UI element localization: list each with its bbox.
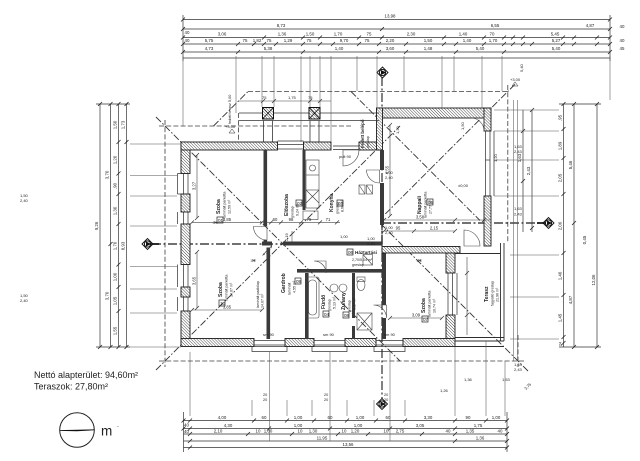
terrace edge right double bbox=[500, 243, 502, 341]
left witness lines bbox=[130, 144, 181, 347]
wall step between sections bbox=[377, 108, 383, 150]
svg-text:1,00: 1,00 bbox=[294, 415, 303, 420]
svg-text:20: 20 bbox=[384, 393, 388, 397]
svg-text:1,53: 1,53 bbox=[502, 377, 511, 382]
elevation mark right bbox=[512, 82, 518, 86]
svg-text:1,36: 1,36 bbox=[278, 32, 287, 37]
svg-text:1,36: 1,36 bbox=[464, 377, 473, 382]
washing machine haztartasi bbox=[363, 255, 373, 266]
svg-text:20: 20 bbox=[384, 398, 388, 402]
svg-text:2,40: 2,40 bbox=[367, 241, 376, 246]
window top (left section) bbox=[278, 145, 304, 150]
svg-text:Fürdő: Fürdő bbox=[321, 295, 327, 309]
svg-text:Gardrob: Gardrob bbox=[281, 273, 287, 293]
svg-text:1,00: 1,00 bbox=[492, 415, 501, 420]
top chain line 6 bbox=[183, 57, 610, 59]
wall left pier5 bbox=[181, 311, 190, 346]
bottom chain ticks bbox=[182, 419, 510, 450]
svg-text:1,63: 1,63 bbox=[514, 206, 523, 211]
svg-text:2,43: 2,43 bbox=[514, 149, 523, 154]
wall left pier1 bbox=[181, 142, 190, 174]
svg-text:1,05: 1,05 bbox=[113, 296, 118, 305]
wall top seg3 porch bbox=[359, 142, 380, 150]
eaves right vertical bbox=[507, 85, 509, 243]
wall right upper pier1 bbox=[484, 108, 491, 131]
top witness lines bbox=[183, 56, 610, 142]
svg-text:21,96 m²: 21,96 m² bbox=[496, 287, 500, 302]
door arc szoba01 bbox=[254, 227, 268, 241]
svg-text:5,45: 5,45 bbox=[551, 32, 560, 37]
svg-text:1,30: 1,30 bbox=[309, 429, 318, 434]
hip diagonal F right section NW bbox=[351, 92, 480, 221]
left chain numbers (rotated) bbox=[94, 120, 126, 335]
label konyha bbox=[329, 193, 345, 214]
svg-text:pult 90: pult 90 bbox=[339, 154, 352, 159]
wall V1 szoba01/eloszoba bbox=[264, 150, 268, 226]
svg-text:90: 90 bbox=[466, 415, 471, 420]
svg-text:laminált parketta: laminált parketta bbox=[428, 291, 432, 317]
svg-text:3,30: 3,30 bbox=[424, 415, 433, 420]
svg-text:9,26: 9,26 bbox=[94, 221, 99, 230]
svg-text:1,50: 1,50 bbox=[460, 121, 465, 130]
svg-text:70: 70 bbox=[490, 32, 495, 37]
svg-text:Fedett belépő: Fedett belépő bbox=[360, 119, 365, 148]
svg-text:8,93: 8,93 bbox=[121, 241, 126, 250]
svg-text:1,55: 1,55 bbox=[113, 326, 118, 335]
door arc furdo bbox=[314, 261, 326, 273]
svg-text:13,98: 13,98 bbox=[385, 14, 397, 19]
chimney pillar 1 bbox=[263, 108, 274, 120]
door arc entrance bbox=[343, 150, 359, 166]
svg-text:3,06: 3,06 bbox=[218, 32, 227, 37]
wall left pier3 bbox=[181, 224, 190, 265]
wall bottom seg2 bbox=[285, 339, 314, 347]
svg-text:10,74 m²: 10,74 m² bbox=[433, 298, 437, 313]
svg-text:10: 10 bbox=[256, 429, 261, 434]
svg-text:95: 95 bbox=[396, 226, 401, 231]
wall H3 haztartasi south bbox=[297, 269, 382, 273]
svg-text:3,60: 3,60 bbox=[386, 46, 395, 51]
svg-text:greslap: greslap bbox=[366, 136, 370, 148]
svg-text:75: 75 bbox=[267, 38, 272, 43]
svg-text:laminált parketta: laminált parketta bbox=[225, 275, 229, 301]
svg-text:1,20: 1,20 bbox=[351, 429, 360, 434]
svg-text:20: 20 bbox=[324, 398, 328, 402]
wall top seg2 bbox=[304, 142, 332, 150]
wall right lower pier2 bbox=[446, 315, 455, 339]
svg-text:40: 40 bbox=[184, 429, 189, 434]
svg-text:1,40: 1,40 bbox=[463, 38, 472, 43]
door arc konyha bbox=[367, 170, 380, 183]
svg-text:1,35: 1,35 bbox=[466, 429, 475, 434]
svg-text:1,36: 1,36 bbox=[476, 436, 485, 441]
svg-text:1,75: 1,75 bbox=[474, 423, 483, 428]
svg-text:greslap: greslap bbox=[352, 263, 364, 267]
section marker bottom bbox=[377, 399, 388, 410]
svg-text:98: 98 bbox=[289, 217, 294, 222]
door height marks bbox=[212, 220, 422, 263]
window left W1 bbox=[184, 174, 189, 195]
hip diagonal E porch valley bbox=[214, 92, 249, 127]
right witness lines bbox=[494, 100, 559, 361]
svg-text:`: ` bbox=[117, 427, 119, 433]
eaves top-left horizontal bbox=[159, 125, 351, 127]
svg-text:20: 20 bbox=[263, 393, 267, 397]
svg-text:3,85: 3,85 bbox=[223, 305, 232, 310]
label zuhany bbox=[341, 292, 357, 312]
porch dimension line bbox=[239, 100, 331, 102]
svg-text:1,00: 1,00 bbox=[340, 234, 349, 239]
svg-text:2,20: 2,20 bbox=[386, 38, 395, 43]
svg-text:40: 40 bbox=[498, 429, 503, 434]
door leaf boxes hall bbox=[359, 185, 365, 194]
svg-text:↕H: ↕H bbox=[212, 220, 218, 225]
label fedett terasz bbox=[228, 95, 232, 124]
svg-text:20: 20 bbox=[263, 398, 267, 402]
svg-text:2,40: 2,40 bbox=[385, 230, 394, 235]
label szoba02 material column bbox=[256, 281, 265, 308]
label nappali bbox=[417, 192, 433, 218]
svg-text:0,45: 0,45 bbox=[582, 235, 587, 244]
svg-text:↕H: ↕H bbox=[416, 258, 422, 263]
svg-text:Teraszok: 27,80m²: Teraszok: 27,80m² bbox=[34, 382, 108, 392]
terrace bottom edge bbox=[455, 337, 504, 339]
svg-text:Szoba: Szoba bbox=[421, 298, 427, 313]
wc zuhany bbox=[357, 280, 365, 291]
top chain line 1 bbox=[183, 19, 610, 21]
svg-text:laminált padlólap: laminált padlólap bbox=[256, 281, 260, 308]
svg-text:5,75: 5,75 bbox=[205, 38, 214, 43]
svg-text:m: m bbox=[101, 424, 112, 439]
label gardrob bbox=[281, 273, 297, 295]
svg-text:75: 75 bbox=[307, 217, 312, 222]
svg-text:laminált parketta: laminált parketta bbox=[223, 192, 227, 218]
svg-text:6,55: 6,55 bbox=[491, 23, 500, 28]
svg-text:Terasz: Terasz bbox=[484, 286, 490, 302]
terrace top edge bbox=[455, 253, 501, 255]
svg-text:60: 60 bbox=[273, 217, 278, 222]
svg-text:9,70: 9,70 bbox=[340, 38, 349, 43]
label szoba04 bbox=[421, 291, 437, 317]
chimney pillar 2 bbox=[309, 108, 320, 120]
svg-text:40: 40 bbox=[185, 38, 190, 43]
window right wall lower (to terrace) bbox=[448, 273, 453, 315]
svg-text:Zuhany: Zuhany bbox=[341, 292, 347, 310]
svg-text:4,00: 4,00 bbox=[218, 415, 227, 420]
svg-text:75: 75 bbox=[307, 38, 312, 43]
svg-text:75: 75 bbox=[308, 95, 313, 100]
svg-text:4,87: 4,87 bbox=[586, 23, 595, 28]
svg-text:1,40: 1,40 bbox=[459, 32, 468, 37]
right chain ticks bbox=[521, 102, 599, 349]
section line horizontal left y244 bbox=[152, 243, 382, 245]
wall V1b szoba02/gardrob bbox=[267, 248, 271, 340]
svg-text:1,50: 1,50 bbox=[424, 38, 433, 43]
svg-text:1,40: 1,40 bbox=[335, 46, 344, 51]
svg-text:2,15: 2,15 bbox=[430, 226, 439, 231]
svg-text:2,43: 2,43 bbox=[526, 166, 531, 175]
door arc gardrob corridor bbox=[263, 246, 273, 256]
svg-text:75: 75 bbox=[365, 38, 370, 43]
sink furdo bbox=[330, 284, 338, 292]
eaves bottom horizontal bbox=[159, 360, 524, 362]
porch column wall left bbox=[263, 121, 265, 143]
door arc nappali terrace bbox=[464, 230, 480, 246]
label terasz bbox=[484, 281, 500, 306]
svg-text:12,59 m²: 12,59 m² bbox=[228, 199, 232, 214]
section line horizontal right y223 bbox=[382, 222, 544, 224]
svg-text:11,95: 11,95 bbox=[317, 436, 328, 441]
svg-text:40: 40 bbox=[620, 38, 625, 43]
window bottom B3 bbox=[376, 341, 403, 346]
svg-text:+3,00: +3,00 bbox=[510, 77, 521, 82]
svg-text:Szoba: Szoba bbox=[218, 282, 224, 297]
top chain ticks bbox=[181, 18, 612, 55]
wall bottom seg1 bbox=[181, 339, 254, 347]
svg-text:04: 04 bbox=[324, 312, 330, 317]
svg-text:3,09: 3,09 bbox=[412, 313, 421, 318]
svg-text:10: 10 bbox=[342, 429, 347, 434]
hip diagonal B bottom-left to top bbox=[156, 126, 400, 370]
svg-text:1,00: 1,00 bbox=[113, 272, 118, 281]
section line vertical x382 bbox=[381, 77, 383, 399]
hip diagonal C top-right down-left bbox=[382, 84, 515, 217]
svg-text:14,07 m²: 14,07 m² bbox=[261, 293, 265, 308]
svg-text:sm 90: sm 90 bbox=[263, 332, 275, 337]
svg-text:2,40: 2,40 bbox=[385, 175, 394, 180]
wall eloszoba south seg2 bbox=[283, 242, 382, 246]
svg-text:1,20: 1,20 bbox=[395, 125, 400, 134]
svg-text:2,70/5,04 m²: 2,70/5,04 m² bbox=[352, 258, 373, 262]
svg-text:1,75: 1,75 bbox=[288, 95, 297, 100]
window left W2 bbox=[184, 212, 189, 224]
svg-text:10: 10 bbox=[384, 429, 389, 434]
svg-text:Szoba: Szoba bbox=[216, 199, 222, 214]
wall V2 kitchen/eloszoba bbox=[303, 150, 306, 210]
svg-text:24: 24 bbox=[559, 342, 563, 346]
svg-text:45: 45 bbox=[620, 46, 625, 51]
svg-text:1,20: 1,20 bbox=[493, 153, 498, 162]
eaves top-right horizontal bbox=[351, 91, 508, 93]
top chain line 4 bbox=[183, 43, 610, 45]
wall V4 furdo/zuhany bbox=[352, 273, 355, 318]
wall nappali south bbox=[382, 247, 460, 254]
svg-text:75: 75 bbox=[367, 32, 372, 37]
door arc nappali NE bbox=[471, 118, 484, 131]
svg-text:laminált: laminált bbox=[288, 283, 292, 295]
svg-text:4,30: 4,30 bbox=[224, 423, 233, 428]
label szoba01 bbox=[216, 192, 232, 218]
svg-text:2,43: 2,43 bbox=[514, 367, 523, 372]
svg-text:5,46: 5,46 bbox=[568, 160, 573, 169]
top chain line 2 bbox=[183, 28, 610, 30]
label szoba02 bbox=[218, 275, 234, 301]
svg-text:2,19: 2,19 bbox=[284, 232, 289, 241]
svg-text:40: 40 bbox=[184, 423, 189, 428]
svg-text:5,38: 5,38 bbox=[264, 46, 273, 51]
svg-text:sm 90: sm 90 bbox=[323, 332, 335, 337]
svg-text:Konyha: Konyha bbox=[329, 193, 335, 212]
svg-text:↕H: ↕H bbox=[250, 258, 256, 263]
eaves left vertical bbox=[164, 120, 166, 367]
bathtub bbox=[306, 277, 319, 318]
window left W3 bbox=[184, 265, 189, 288]
svg-text:2,05: 2,05 bbox=[558, 173, 563, 182]
svg-text:40: 40 bbox=[446, 429, 451, 434]
svg-text:40: 40 bbox=[620, 24, 625, 29]
window bottom B1 bbox=[254, 341, 285, 346]
svg-text:1,70: 1,70 bbox=[113, 241, 118, 250]
svg-text:5,40: 5,40 bbox=[476, 46, 485, 51]
wall bottom seg4 bbox=[403, 339, 455, 347]
svg-text:1,20: 1,20 bbox=[113, 155, 118, 164]
svg-text:5,40: 5,40 bbox=[519, 63, 524, 72]
svg-text:71: 71 bbox=[326, 217, 331, 222]
svg-text:1,73: 1,73 bbox=[121, 120, 126, 129]
wall left pier2 bbox=[181, 194, 190, 212]
svg-text:60: 60 bbox=[328, 415, 333, 420]
left window size labels bbox=[20, 193, 29, 303]
door arc szoba04 bbox=[374, 305, 387, 318]
svg-text:1,45: 1,45 bbox=[558, 313, 563, 322]
svg-text:Nappali: Nappali bbox=[417, 195, 423, 214]
svg-text:1,48: 1,48 bbox=[424, 46, 433, 51]
svg-text:fedett terasz 5,00: fedett terasz 5,00 bbox=[228, 95, 232, 124]
svg-text:Nettó alapterület: 94,60m²: Nettó alapterület: 94,60m² bbox=[34, 370, 138, 380]
svg-text:14,07 m²: 14,07 m² bbox=[230, 282, 234, 297]
shower tray bbox=[357, 313, 372, 330]
svg-text:3,65: 3,65 bbox=[192, 276, 197, 285]
svg-text:60: 60 bbox=[262, 415, 267, 420]
szoba04 terrace window dim line bbox=[466, 257, 468, 335]
top chain line 3 bbox=[183, 37, 610, 39]
svg-text:5,40: 5,40 bbox=[552, 46, 561, 51]
svg-text:05: 05 bbox=[428, 200, 434, 205]
wall eloszoba south seg1 bbox=[262, 242, 272, 246]
window sill small labels bbox=[263, 393, 388, 402]
section marker right bbox=[537, 218, 554, 229]
top chain numbers bbox=[185, 14, 625, 52]
svg-text:1,30: 1,30 bbox=[113, 206, 118, 215]
svg-text:1,70: 1,70 bbox=[489, 38, 498, 43]
porch slab lines bbox=[239, 112, 379, 114]
svg-text:1,00: 1,00 bbox=[356, 415, 365, 420]
svg-text:3,05: 3,05 bbox=[416, 423, 425, 428]
wall top right section bbox=[377, 108, 492, 118]
svg-text:1,00: 1,00 bbox=[294, 423, 303, 428]
wall V3b zuhany/szoba04 bbox=[382, 253, 386, 305]
porch dashed edge vertical bbox=[237, 113, 239, 142]
svg-text:20: 20 bbox=[324, 393, 328, 397]
label eloszoba bbox=[284, 194, 300, 218]
top chain end bars bbox=[182, 15, 184, 61]
top chain line 5 bbox=[183, 51, 610, 53]
window left W4 bbox=[184, 297, 189, 311]
svg-text:1,50: 1,50 bbox=[306, 32, 315, 37]
hip diagonal D bottom-right up-left bbox=[382, 225, 528, 371]
svg-text:Előszoba: Előszoba bbox=[284, 194, 290, 216]
svg-text:12,06: 12,06 bbox=[591, 274, 596, 286]
svg-text:4,87: 4,87 bbox=[568, 295, 573, 304]
svg-text:1,46: 1,46 bbox=[558, 271, 563, 280]
svg-text:3,58: 3,58 bbox=[416, 215, 425, 220]
kitchen counter bbox=[306, 160, 319, 208]
svg-text:sm 90: sm 90 bbox=[384, 332, 396, 337]
svg-text:1,29: 1,29 bbox=[284, 38, 293, 43]
svg-text:2,30: 2,30 bbox=[407, 32, 416, 37]
svg-text:1,89: 1,89 bbox=[558, 141, 563, 150]
svg-text:06: 06 bbox=[348, 250, 354, 255]
section line jog vertical bbox=[381, 223, 383, 244]
bottom witness lines bbox=[190, 341, 505, 441]
right chain numbers (rotated) bbox=[517, 114, 596, 346]
elevation mark topleft bbox=[229, 129, 235, 133]
left chain ticks bbox=[98, 102, 129, 349]
label fedett belepo bbox=[360, 119, 370, 148]
entrance door top bbox=[333, 145, 359, 147]
eaves porch horizontal bbox=[248, 91, 351, 93]
svg-text:40: 40 bbox=[185, 30, 190, 35]
svg-text:5,27: 5,27 bbox=[552, 38, 561, 43]
svg-text:1,26: 1,26 bbox=[440, 388, 449, 393]
svg-text:1,50: 1,50 bbox=[113, 120, 118, 129]
svg-text:2,06: 2,06 bbox=[558, 221, 563, 230]
eloszoba vertical witness bbox=[291, 231, 293, 242]
svg-text:2,40: 2,40 bbox=[20, 198, 29, 203]
wall top seg1 bbox=[181, 142, 278, 150]
svg-text:8,73: 8,73 bbox=[277, 23, 286, 28]
interior vertical dim szoba01 bbox=[197, 125, 390, 308]
svg-text:Háztartási: Háztartási bbox=[355, 250, 377, 255]
cabinet eloszoba south bbox=[303, 211, 318, 220]
svg-text:2,10: 2,10 bbox=[214, 429, 223, 434]
svg-text:1,70: 1,70 bbox=[334, 32, 343, 37]
svg-text:08: 08 bbox=[344, 313, 350, 318]
svg-text:1,80: 1,80 bbox=[264, 429, 273, 434]
svg-text:3,85: 3,85 bbox=[223, 217, 232, 222]
wall bottom seg3 bbox=[345, 339, 376, 347]
svg-text:+3,00: +3,00 bbox=[225, 124, 236, 129]
svg-text:13,56: 13,56 bbox=[343, 442, 355, 447]
wall right lower pier1 bbox=[446, 253, 455, 273]
svg-text:10: 10 bbox=[298, 429, 303, 434]
wall V3 konyha/nappali bbox=[380, 150, 384, 170]
section marker left bbox=[142, 239, 159, 250]
svg-text:3,70: 3,70 bbox=[105, 291, 110, 300]
svg-text:03: 03 bbox=[338, 201, 344, 206]
svg-text:4,73: 4,73 bbox=[205, 46, 214, 51]
porch column wall right bbox=[309, 121, 311, 143]
svg-text:75: 75 bbox=[243, 38, 248, 43]
bottom chain numbers bbox=[184, 415, 503, 447]
section marker top bbox=[377, 67, 388, 78]
svg-text:09: 09 bbox=[296, 279, 302, 284]
svg-text:greslap: greslap bbox=[348, 300, 352, 312]
svg-text:5,13 m²: 5,13 m² bbox=[333, 296, 337, 309]
window right wall upper bbox=[486, 131, 491, 196]
svg-text:3,17 m²: 3,17 m² bbox=[353, 297, 357, 310]
window bottom B2 bbox=[314, 341, 345, 346]
svg-text:3,70: 3,70 bbox=[105, 170, 110, 179]
hip diagonal A top-left to bottom bbox=[156, 117, 400, 361]
wall V2b gardrob/furdo bbox=[305, 273, 309, 339]
svg-text:.90: .90 bbox=[113, 182, 118, 189]
svg-text:3,27: 3,27 bbox=[192, 181, 197, 190]
svg-text:1,82: 1,82 bbox=[253, 38, 262, 43]
svg-text:02: 02 bbox=[297, 201, 303, 206]
label haztartasi bbox=[347, 249, 353, 255]
wall right upper pier2 bbox=[484, 196, 491, 246]
